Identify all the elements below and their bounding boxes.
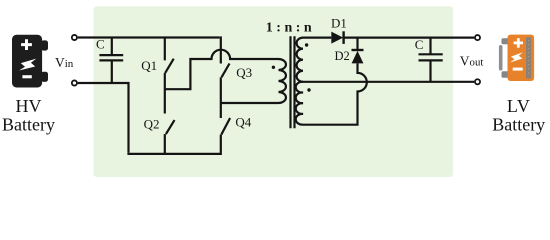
svg-text:Vin: Vin [55, 55, 74, 70]
battery LV icon [499, 35, 534, 81]
svg-text:C: C [96, 37, 105, 52]
battery HV icon [12, 35, 48, 88]
diode D2 [352, 50, 364, 63]
wire node B to primary bottom [221, 102, 279, 104]
svg-text:Q2: Q2 [144, 117, 160, 132]
capacitor C input stub bottom [111, 60, 113, 83]
node dot primary [272, 66, 275, 69]
wire secondary top to D1 [303, 36, 331, 38]
switch Q1 [165, 38, 174, 74]
capacitor C input plates [99, 55, 123, 60]
svg-text:Q1: Q1 [141, 58, 157, 73]
svg-text:Q3: Q3 [236, 65, 252, 80]
wire left leg bottom [164, 134, 166, 155]
transformer primary winding [279, 59, 286, 103]
wire right leg middle [220, 77, 222, 103]
wire right leg bottom [220, 135, 222, 155]
svg-text:C: C [415, 37, 424, 52]
transformer core [291, 36, 295, 128]
svg-text:D2: D2 [335, 49, 350, 63]
wire output return rail [303, 81, 474, 83]
svg-text:Q4: Q4 [235, 115, 251, 130]
wire right leg top [220, 36, 222, 63]
transformer secondary lower winding [296, 82, 303, 125]
switch Q2 [166, 120, 175, 134]
svg-text:LV: LV [507, 96, 531, 116]
capacitor C input stub top [111, 38, 113, 56]
svg-text:Vout: Vout [460, 53, 484, 68]
terminal Vin plus [72, 35, 77, 40]
capacitor C output plates [419, 54, 443, 60]
svg-text:Battery: Battery [492, 115, 545, 135]
switch Q3 [222, 64, 230, 78]
wire D1 cathode to output plus [344, 36, 475, 38]
transformer secondary upper winding [297, 38, 303, 82]
wire D2 cathode up [356, 38, 358, 50]
capacitor C output stub top [429, 38, 431, 55]
svg-text:1 : n : n: 1 : n : n [266, 20, 312, 35]
diode D1 [331, 31, 343, 44]
capacitor C output stub bottom [429, 60, 431, 81]
svg-text:Battery: Battery [2, 115, 55, 135]
wire bridge node A to primary with hop [165, 50, 279, 89]
wire top rail input [78, 36, 220, 38]
wire D2 anode with hop over return rail [303, 63, 367, 124]
terminal Vin minus [72, 80, 77, 85]
terminal Vout minus [475, 79, 480, 84]
wire bottom rail [127, 153, 220, 155]
converter panel [94, 6, 454, 177]
node dot secondary upper [305, 43, 308, 46]
switch Q4 [221, 103, 230, 135]
wire left leg middle [164, 73, 166, 113]
svg-text:HV: HV [16, 96, 42, 116]
svg-text:D1: D1 [331, 16, 347, 31]
wire Vin negative [78, 83, 129, 153]
node dot secondary lower [307, 88, 310, 91]
terminal Vout plus [475, 35, 480, 40]
